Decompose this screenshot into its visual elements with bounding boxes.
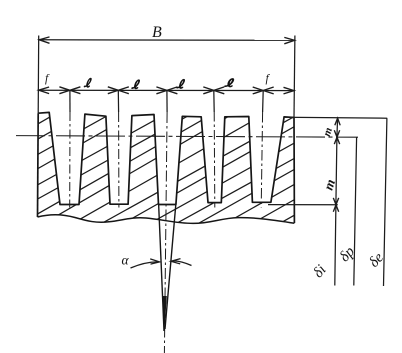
dimension m lower (pitch line to slot floor) [336, 137, 337, 205]
svg-text:δi: δi [310, 262, 329, 281]
svg-text:f: f [45, 73, 50, 85]
right side: slot floor extension line [268, 204, 338, 206]
junction arrows x=166.9 [156, 87, 177, 94]
slot centerline 5 [261, 112, 262, 208]
alpha wedge apex fill [163, 296, 167, 332]
extension line: B right / part right edge above teeth [293, 36, 296, 118]
svg-text:f: f [266, 73, 271, 85]
slot centerline 4 [213, 112, 216, 208]
arrowhead B left [39, 37, 49, 43]
alpha wedge left construction line [159, 204, 164, 332]
extension stubs from dimension junctions to teeth tops [70, 90, 263, 112]
slot centerline 1 [69, 112, 71, 208]
dimension line f e e e e f [39, 89, 294, 91]
svg-text:α: α [122, 253, 130, 268]
slot centerline 3 (extends to apex) [164, 112, 167, 353]
junction arrows x=263.2 [253, 87, 274, 94]
label e 1 [84, 79, 91, 87]
horizontal dash-dot axis (pitch line) [16, 136, 358, 138]
alpha wedge right construction line [165, 204, 176, 330]
svg-text:m: m [321, 126, 335, 138]
extension line: B left / part left edge above teeth [37, 36, 40, 114]
dimension m upper (tip line to pitch line) [336, 118, 339, 137]
svg-text:δp: δp [337, 243, 359, 265]
alpha leader right with arrow [171, 261, 191, 266]
dimension line B [39, 39, 294, 42]
slot centerline 2 [118, 112, 120, 208]
label e 3 [177, 80, 185, 88]
delta-e vertical line [384, 118, 387, 286]
delta-i vertical line [335, 205, 336, 286]
svg-text:m: m [321, 177, 339, 192]
right side: top extension line (teeth tip level) [284, 116, 387, 119]
arrowhead f right end [284, 87, 295, 94]
junction arrows x=213.8 [203, 87, 224, 94]
hatching of part cross-section [30, 0, 302, 353]
label e 2 [132, 80, 140, 88]
alpha leader left with arrow [131, 262, 159, 268]
delta-p vertical line [354, 137, 357, 285]
label e 4 [225, 79, 234, 87]
junction arrows x=69.9 [59, 87, 80, 94]
left edge of part [37, 113, 40, 217]
wavy break line at bottom [38, 215, 295, 224]
arrowhead f left end [39, 87, 50, 94]
part outline: toothed profile with 6 teeth and 5 slots, wavy break line bottom [38, 112, 294, 223]
svg-text:B: B [152, 24, 162, 41]
arrowhead B right [284, 37, 294, 43]
junction arrows x=118.3 [108, 87, 129, 94]
